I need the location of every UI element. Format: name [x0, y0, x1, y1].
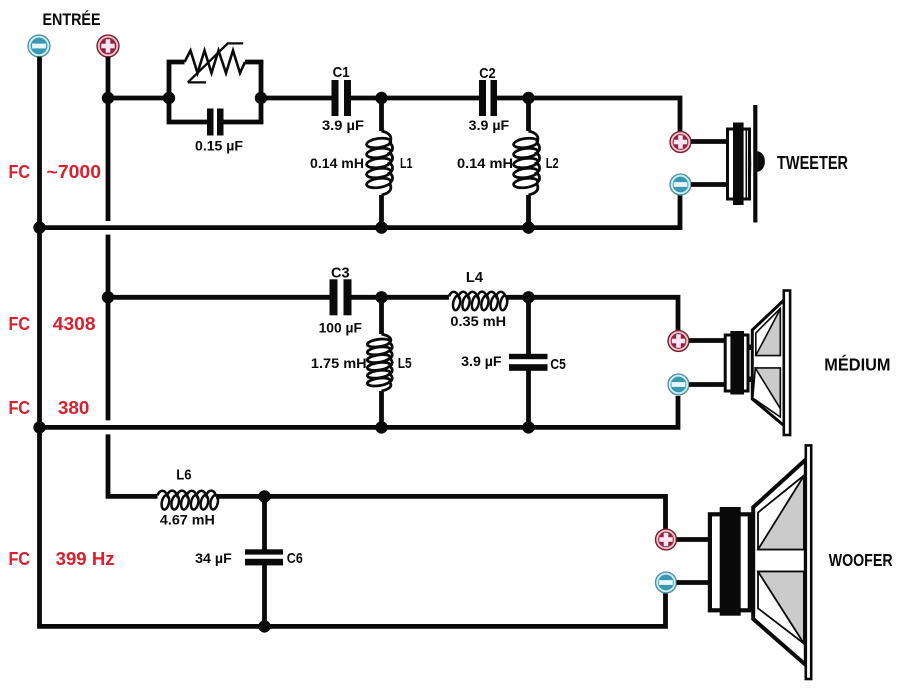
svg-text:4.67 mH: 4.67 mH	[160, 512, 215, 528]
medium speaker cone bottom gray triangle	[755, 368, 780, 409]
tweeter terminal plus	[670, 132, 691, 153]
node L5 bottom	[375, 421, 387, 433]
svg-text:0.15 µF: 0.15 µF	[195, 138, 243, 154]
svg-text:C1: C1	[333, 64, 350, 81]
tweeter speaker magnet	[733, 123, 744, 206]
wire woofer plus stub	[677, 537, 712, 542]
capacitor C6 plates	[245, 549, 283, 554]
svg-text:C6: C6	[287, 550, 303, 567]
svg-text:FC: FC	[9, 549, 31, 569]
node C6 top	[258, 490, 270, 502]
wire negative bus vertical	[37, 57, 42, 627]
node tweeter feed junction	[102, 92, 114, 104]
svg-text:FC: FC	[9, 162, 31, 182]
woofer speaker cone bottom gray triangle	[758, 572, 804, 644]
wire tweeter rail C2 to speaker with right riser	[497, 98, 681, 133]
resistor R1 (variable, zigzag)	[185, 51, 246, 74]
svg-text:4308: 4308	[53, 314, 96, 334]
svg-text:L6: L6	[176, 467, 191, 484]
wire parallel-block right riser	[259, 60, 264, 124]
capacitor 0.15 µF plates	[207, 109, 214, 136]
wire tweeter return rail	[37, 194, 680, 228]
wire parallel-block left riser	[167, 60, 172, 124]
svg-text:WOOFER: WOOFER	[829, 550, 893, 570]
svg-text:399 Hz: 399 Hz	[56, 549, 115, 569]
wire tweeter feed	[108, 96, 169, 101]
medium terminal plus	[668, 331, 689, 352]
svg-text:3.9 µF: 3.9 µF	[469, 117, 510, 133]
svg-text:~7000: ~7000	[47, 162, 102, 182]
wire woofer return rail	[37, 592, 665, 626]
svg-text:MÉDIUM: MÉDIUM	[824, 354, 890, 375]
wire medium return rail	[37, 396, 678, 427]
capacitor C1 plates	[332, 80, 339, 116]
svg-text:0.14 mH: 0.14 mH	[310, 155, 364, 171]
wire medium plus stub	[689, 338, 726, 343]
wire L2 top lead	[526, 98, 531, 131]
svg-text:FC: FC	[9, 314, 31, 334]
wire positive bus segment 2 (crossover gap at tweeter return)	[106, 235, 111, 421]
svg-text:L2: L2	[546, 155, 559, 172]
node C6 bottom	[258, 620, 270, 632]
input terminal plus	[97, 35, 119, 57]
medium speaker cone outline	[752, 300, 784, 426]
wire C5 top lead	[526, 297, 531, 354]
svg-text:L5: L5	[398, 355, 412, 372]
svg-text:3.9 µF: 3.9 µF	[322, 117, 364, 133]
medium speaker nub top	[748, 345, 753, 351]
svg-text:34 µF: 34 µF	[195, 550, 232, 566]
node L5 top	[375, 291, 387, 303]
wire tweeter minus stub	[691, 182, 728, 187]
svg-text:FC: FC	[9, 398, 31, 418]
capacitor C2 plates	[479, 80, 486, 116]
tweeter speaker baffle	[753, 105, 757, 223]
wire L5 top lead	[379, 297, 384, 334]
wire C6 top lead	[262, 496, 267, 551]
woofer speaker frame	[710, 514, 750, 610]
svg-text:C3: C3	[331, 264, 350, 281]
svg-text:C2: C2	[479, 65, 496, 82]
wire woofer rail L6 to speaker with right riser	[216, 496, 666, 530]
medium speaker frame	[725, 335, 748, 391]
woofer speaker nub bottom	[750, 591, 755, 597]
wire medium rail C3 to L4	[352, 295, 450, 300]
wire medium rail L4 to speaker with right riser	[506, 297, 679, 331]
tweeter speaker diaphragm arc	[749, 132, 750, 196]
inductor L1 coil	[382, 131, 391, 143]
resistor R1 adjustment arrow	[188, 43, 243, 82]
wire tweeter rail to C1	[261, 96, 332, 101]
inductor L6 coil	[158, 491, 217, 496]
inductor L2 coil	[529, 131, 538, 143]
medium speaker cone bottom quad	[753, 368, 781, 417]
medium speaker cone top gray triangle	[756, 309, 781, 356]
node medium return left	[33, 421, 45, 433]
medium speaker nub bottom	[748, 377, 753, 383]
svg-text:3.9 µF: 3.9 µF	[461, 353, 502, 369]
tweeter speaker dome	[757, 151, 765, 171]
woofer speaker cone top quad	[758, 476, 804, 550]
svg-text:100 µF: 100 µF	[319, 319, 363, 335]
wire parallel-block top leads	[167, 60, 185, 65]
wire C6 bottom lead	[262, 565, 267, 627]
node C5 bottom	[522, 421, 534, 433]
tweeter terminal minus	[670, 174, 691, 195]
medium terminal minus	[668, 374, 689, 395]
wire medium minus stub	[689, 382, 726, 387]
node L2 bottom	[522, 221, 534, 233]
wire parallel-block bottom leads	[167, 120, 207, 125]
capacitor C5 plates	[509, 354, 548, 359]
woofer speaker nub top	[750, 547, 755, 553]
wire tweeter plus stub	[691, 139, 728, 144]
woofer speaker cone outline	[753, 460, 806, 666]
node C5 top	[522, 291, 534, 303]
node parallel-block right	[255, 92, 267, 104]
node L1 bottom	[375, 221, 387, 233]
woofer terminal plus	[656, 529, 677, 550]
input terminal minus	[28, 35, 50, 57]
inductor L4 coil	[449, 292, 506, 297]
wire L1 top lead	[379, 98, 384, 131]
woofer terminal minus	[656, 572, 677, 593]
medium speaker magnet	[730, 331, 744, 395]
woofer speaker cone bottom quad	[758, 572, 804, 644]
wire positive bus segment 1	[106, 57, 111, 222]
inductor L5 coil	[382, 334, 391, 343]
tweeter speaker frame	[728, 129, 750, 199]
woofer speaker baffle	[806, 445, 811, 679]
medium speaker cone top quad	[756, 309, 781, 356]
woofer speaker cone top gray triangle	[758, 476, 804, 550]
svg-text:0.14 mH: 0.14 mH	[457, 155, 513, 171]
svg-text:L4: L4	[466, 269, 484, 286]
wire L1 bottom lead	[379, 195, 384, 228]
svg-text:TWEETER: TWEETER	[777, 152, 848, 173]
wire L5 bottom lead	[379, 391, 384, 427]
node medium feed junction	[102, 291, 114, 303]
node L1 top	[375, 92, 387, 104]
wire medium feed to C3	[108, 295, 330, 300]
svg-text:380: 380	[58, 398, 90, 418]
capacitor C3 plates	[330, 279, 338, 315]
svg-text:C5: C5	[550, 356, 565, 373]
wire tweeter rail C1 to C2	[351, 96, 479, 101]
wire woofer minus stub	[677, 580, 712, 585]
svg-text:0.35 mH: 0.35 mH	[450, 313, 506, 329]
node parallel-block left	[163, 92, 175, 104]
wire C5 bottom lead	[526, 371, 531, 428]
svg-text:ENTRÉE: ENTRÉE	[43, 10, 101, 29]
node tweeter return left	[33, 221, 45, 233]
svg-text:L1: L1	[400, 155, 413, 172]
wire L2 bottom lead	[526, 195, 531, 228]
wire positive bus segment 3 (crossover gap at medium return)	[108, 434, 158, 496]
tweeter speaker inner ring line	[745, 130, 747, 199]
node L2 top	[522, 92, 534, 104]
woofer speaker magnet	[720, 507, 741, 616]
svg-text:1.75 mH: 1.75 mH	[311, 355, 367, 371]
medium speaker baffle	[784, 291, 790, 436]
